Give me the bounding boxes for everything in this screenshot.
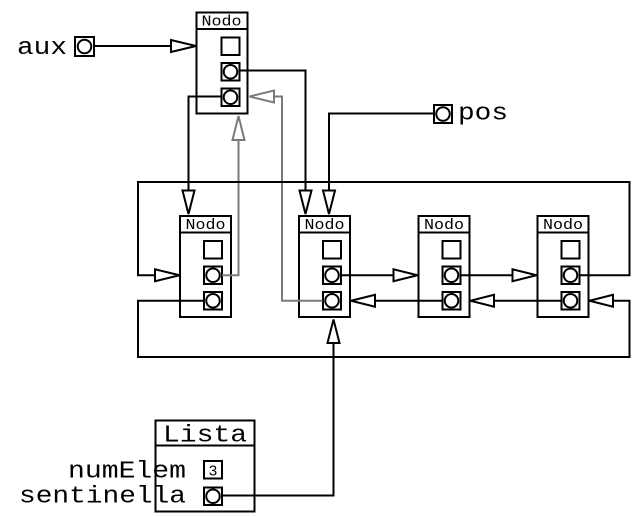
variable aux cell [75,37,94,56]
svg-text:Nodo: Nodo [543,217,583,234]
wire N2.next to N3 [341,274,394,276]
arrowhead N3.next to N4 [513,269,537,281]
arrowhead N1.next to AUXNODE (gray) [233,116,245,140]
object LISTA frame [156,421,255,512]
arrowhead sentinella to N2 [328,320,340,344]
svg-text:Lista: Lista [163,423,247,450]
wire aux to AUXNODE [95,45,172,47]
arrowhead N2.prev to AUXNODE (gray) [250,91,275,103]
wire N4.next to N1 (top wrap) [138,182,630,275]
svg-text:aux: aux [17,35,67,62]
svg-text:Nodo: Nodo [186,217,226,234]
svg-text:sentinella: sentinella [19,484,186,511]
node AUXNODE frame (top Nodo object) [197,13,248,114]
node N3 frame [419,216,470,317]
arrowhead AUXNODE.next to N2 [300,191,312,215]
wire sentinella to N2 [222,343,334,496]
arrowhead N1.prev to N4 [590,295,614,307]
arrowhead N4.prev to N3 [471,295,495,307]
wire AUXNODE.next to N2 [240,71,306,191]
svg-text:3: 3 [209,464,218,481]
arrowhead pos to N2 [323,191,335,215]
wire N1.next to AUXNODE (gray) [222,140,239,275]
svg-text:pos: pos [458,101,508,128]
node N2 frame (sentinel) [299,216,350,317]
wire N2.prev to AUXNODE (gray) [274,97,323,301]
wire N3.prev to N2 [375,300,443,302]
node N1 frame [180,216,231,317]
wire N3.next to N4 [461,274,513,276]
svg-text:numElem: numElem [68,459,186,486]
svg-text:Nodo: Nodo [305,217,345,234]
svg-text:Nodo: Nodo [202,14,242,31]
wire N1.prev to N4 (bottom wrap) [138,301,630,357]
wire AUXNODE.prev to N1 [189,97,222,191]
arrowhead N4.next to N1 [155,269,180,281]
arrowhead AUXNODE.prev to N1 [183,191,195,215]
arrowhead N2.next to N3 [394,269,418,281]
wire N4.prev to N3 [494,300,562,302]
variable pos cell [434,105,452,123]
arrowhead N3.prev to N2 [351,295,375,307]
arrowhead aux to AUXNODE [171,40,196,52]
svg-text:Nodo: Nodo [424,217,464,234]
wire pos to N2 [329,114,434,191]
node N4 frame [538,216,589,317]
